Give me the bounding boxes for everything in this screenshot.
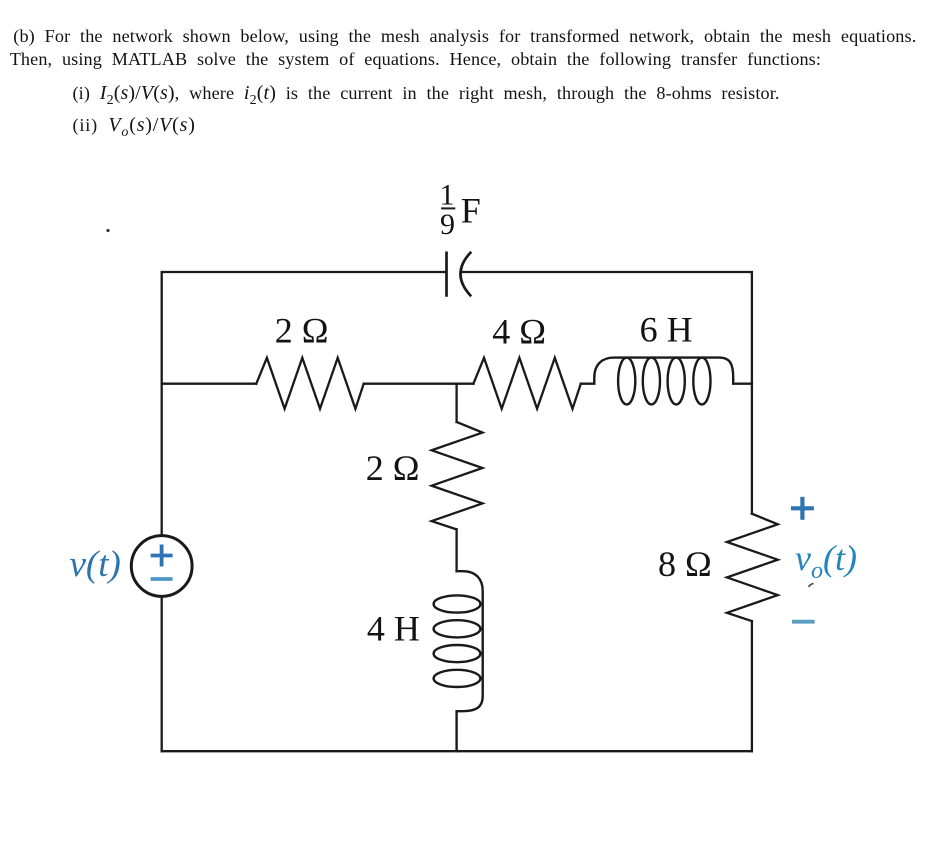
problem statement line (ii) [73, 116, 196, 134]
source plus sign [153, 546, 171, 564]
wire left lower [161, 596, 163, 751]
svg-text:9: 9 [440, 208, 455, 241]
svg-text:1: 1 [440, 179, 455, 212]
wire middle center [364, 383, 474, 385]
wire top left [162, 272, 447, 384]
stray tick [809, 584, 813, 587]
svg-text:4 H: 4 H [367, 609, 420, 649]
problem statement line 1 [13, 27, 916, 45]
wire mid branch top [455, 384, 457, 422]
problem statement line 2 [10, 50, 821, 68]
svg-text:2 Ω: 2 Ω [366, 448, 420, 488]
svg-text:2 Ω: 2 Ω [275, 310, 329, 350]
minus sign output [794, 620, 813, 624]
svg-text:4 Ω: 4 Ω [492, 311, 546, 351]
resistor 2ohm vertical [432, 422, 483, 529]
wire right upper [751, 384, 753, 514]
source v(t) circle [131, 536, 192, 597]
resistor 2ohm horizontal [256, 358, 363, 409]
resistor 8ohm vertical [727, 514, 778, 621]
inductor 6H horizontal [581, 358, 752, 405]
wire top right [462, 272, 752, 384]
svg-text:8 Ω: 8 Ω [658, 544, 712, 584]
wire left upper [161, 384, 163, 536]
wire middle left [162, 383, 257, 385]
fraction bar [442, 207, 454, 209]
svg-text:F: F [461, 191, 481, 231]
plus sign output [793, 499, 812, 518]
problem statement line (i) [73, 84, 780, 102]
wire mid branch middle [455, 529, 457, 571]
label 1/9 F [440, 179, 481, 241]
capacitor C 1/9 F plates [447, 253, 471, 296]
resistor 4ohm horizontal [473, 358, 580, 409]
svg-text:v(t): v(t) [70, 544, 121, 585]
svg-text:vo(t): vo(t) [795, 538, 857, 584]
stray dot [106, 229, 109, 232]
source minus sign [153, 577, 171, 581]
svg-text:6 H: 6 H [640, 309, 693, 349]
bottom wire [162, 750, 752, 752]
inductor 4H vertical [434, 571, 483, 751]
wire right lower [751, 621, 753, 751]
